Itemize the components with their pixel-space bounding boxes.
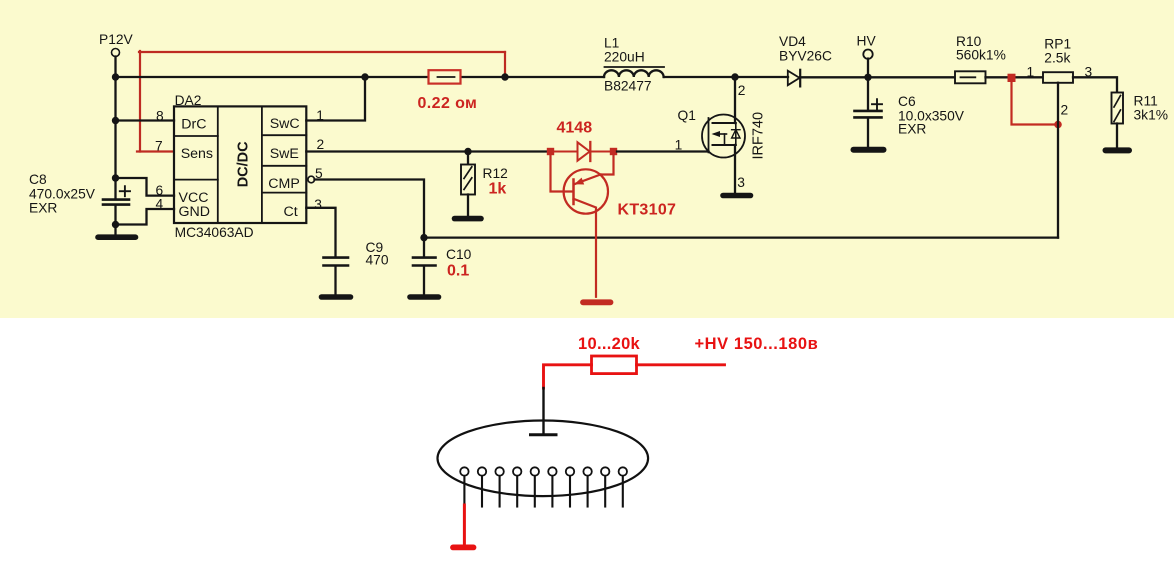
- wire red resistor right to +HV: [637, 363, 725, 366]
- inductor L1 core bar: [605, 66, 665, 68]
- chip DA2 inner columns: [217, 106, 219, 223]
- svg-text:220uH: 220uH: [604, 49, 645, 64]
- svg-text:2.5k: 2.5k: [1044, 50, 1070, 65]
- svg-text:L1: L1: [604, 35, 619, 50]
- inductor L1 winding bumps: [604, 70, 664, 77]
- junction dot pin4/GND: [112, 221, 119, 228]
- svg-text:B82477: B82477: [604, 78, 652, 93]
- junction dot pin8: [112, 117, 119, 124]
- wire rail shunt R right to inductor: [461, 76, 605, 78]
- wire pin 6 VCC jog: [116, 178, 175, 196]
- collector lead: [574, 199, 597, 297]
- wire Q1 drain to rail: [734, 77, 736, 123]
- capacitor C6 plus sign: [872, 99, 882, 109]
- resistor R10 power-mark dash: [961, 76, 976, 78]
- Q1 right vertical (body diode path): [735, 123, 737, 145]
- wire pin 8 DrC to +12V: [116, 119, 175, 121]
- svg-text:8: 8: [156, 109, 164, 124]
- wire red horizontal top to shunt node: [139, 51, 505, 53]
- ground under R11: [1106, 147, 1130, 153]
- tube envelope ellipse: [438, 421, 649, 497]
- wire feedback line from RP1 wiper: [424, 236, 1058, 238]
- svg-text:SwC: SwC: [270, 116, 300, 132]
- Q1 body diode: [732, 130, 740, 138]
- resistor 10...20k body (red): [592, 356, 637, 374]
- svg-text:DA2: DA2: [175, 93, 202, 108]
- resistor 0.22 ohm shunt (red box): [429, 70, 461, 83]
- junction dot HV node: [864, 74, 871, 81]
- red node dot on wiper: [1054, 121, 1062, 129]
- svg-text:HV: HV: [857, 34, 877, 49]
- wire red cathode to ground: [463, 505, 466, 546]
- resistor R12 power slash: [464, 167, 472, 179]
- svg-text:3: 3: [737, 175, 745, 190]
- potentiometer RP1 body: [1043, 72, 1073, 83]
- svg-text:EXR: EXR: [29, 201, 57, 216]
- junction dot shunt node: [501, 73, 508, 80]
- node HV terminal circle: [863, 50, 872, 59]
- transistor KT3107 (red, PNP): [551, 154, 614, 297]
- wire C10 to ground: [423, 267, 425, 295]
- background schematic yellow area: [0, 0, 1174, 318]
- svg-text:DC/DC: DC/DC: [236, 141, 252, 187]
- resistor R11 power slashes: [1114, 96, 1121, 108]
- wire main +12V vertical from P12V down to C8 top plate: [114, 57, 116, 199]
- svg-text:2: 2: [317, 137, 325, 152]
- ground under R12: [455, 216, 482, 222]
- diode 4148 symbol (red): [554, 142, 610, 161]
- svg-text:RP1: RP1: [1044, 36, 1071, 51]
- svg-text:1: 1: [675, 138, 683, 153]
- diode VD4 symbol: [788, 70, 800, 87]
- svg-text:2: 2: [1061, 103, 1069, 118]
- svg-text:EXR: EXR: [898, 121, 926, 136]
- svg-text:7: 7: [155, 139, 163, 154]
- capacitor C6 top lead: [867, 77, 869, 109]
- svg-text:MC34063AD: MC34063AD: [175, 225, 254, 240]
- svg-text:SwE: SwE: [270, 146, 299, 162]
- transistor body circle: [564, 169, 608, 213]
- wire pin 1 SwC up to rail: [306, 77, 365, 121]
- ground under Q1: [723, 193, 751, 199]
- svg-text:470: 470: [366, 252, 389, 267]
- capacitor C10 plates: [413, 258, 436, 266]
- svg-text:VD4: VD4: [779, 34, 806, 49]
- base lead red: [551, 154, 573, 192]
- junction dot P12V rail: [112, 73, 119, 80]
- svg-text:Ct: Ct: [284, 204, 298, 220]
- svg-text:1: 1: [1027, 65, 1035, 80]
- wire red to Sens pin: [137, 150, 174, 152]
- svg-text:2: 2: [738, 83, 746, 98]
- emitter arrowhead: [574, 178, 584, 185]
- svg-text:4148: 4148: [557, 120, 593, 137]
- red node square R10/RP1 junction: [1008, 74, 1016, 82]
- node P12V terminal circle: [112, 49, 120, 57]
- wire rail VD4 to R10: [800, 76, 955, 78]
- capacitor C8 plus sign: [120, 186, 130, 196]
- svg-text:0.22 ом: 0.22 ом: [418, 95, 478, 112]
- capacitor C8 plates: [103, 200, 129, 205]
- resistor R12 top lead: [467, 152, 469, 165]
- wire R10 to red node: [986, 76, 1044, 78]
- potentiometer RP1 wiper line: [1057, 83, 1059, 238]
- Q1 source bar: [713, 144, 736, 146]
- svg-text:1k: 1k: [489, 181, 507, 198]
- resistor R12 body: [461, 165, 475, 195]
- Q1 body circle: [702, 115, 745, 158]
- svg-text:1: 1: [316, 108, 324, 123]
- wire rail inductor to VD4: [664, 76, 788, 78]
- capacitor C6 bottom lead: [867, 119, 869, 147]
- chip DA2 left dividers: [174, 135, 218, 137]
- ground red (tube cathode): [453, 545, 474, 551]
- junction dot feedback joins CMP node: [420, 234, 427, 241]
- ground under C6: [854, 147, 884, 153]
- wire pin 4 GND jog: [116, 209, 175, 225]
- wire red drop from top run to rail: [504, 52, 506, 75]
- wire tube anode lead (black): [542, 388, 544, 434]
- svg-text:Sens: Sens: [181, 146, 213, 162]
- svg-text:IRF740: IRF740: [751, 112, 767, 160]
- red node square right (4148 cathode): [610, 148, 617, 155]
- junction dot SwC rail: [361, 73, 368, 80]
- Q1 gate bar: [708, 118, 710, 152]
- resistor R11 body: [1112, 93, 1124, 124]
- chip DA2 outer box: [174, 106, 306, 223]
- svg-text:10...20k: 10...20k: [578, 335, 641, 353]
- svg-text:470.0x25V: 470.0x25V: [29, 186, 96, 201]
- svg-text:3: 3: [314, 197, 322, 212]
- junction dot R12 top: [464, 148, 471, 155]
- capacitor C6 plates: [855, 111, 882, 118]
- Q1 drain bar: [713, 122, 736, 124]
- wire gate line black to Q1: [617, 150, 709, 152]
- svg-text:C8: C8: [29, 172, 47, 187]
- svg-text:+HV 150...180в: +HV 150...180в: [695, 335, 819, 353]
- svg-text:BYV26C: BYV26C: [779, 49, 832, 64]
- ground under C8: [98, 234, 136, 240]
- capacitor C9 plates: [324, 258, 349, 266]
- junction dot pin6/VCC: [112, 174, 119, 181]
- transistor Q1 MOSFET symbol: [702, 115, 745, 158]
- wire pin 5 CMP to C10: [315, 180, 425, 256]
- junction dot Q1 drain rail: [731, 73, 738, 80]
- emitter lead: [574, 175, 601, 185]
- wire HV terminal to rail: [867, 59, 869, 78]
- wire red sense drop: [1012, 80, 1056, 125]
- svg-text:C6: C6: [898, 94, 916, 109]
- chip DA2 right dividers: [262, 134, 306, 136]
- wire pin 3 Ct to C9: [306, 208, 335, 256]
- svg-text:KT3107: KT3107: [618, 202, 677, 219]
- svg-text:4: 4: [156, 197, 164, 212]
- wire C8 bottom plate to ground: [114, 206, 116, 235]
- wire C9 to ground: [334, 267, 336, 295]
- svg-text:Q1: Q1: [678, 108, 696, 123]
- wire Q1 source to ground: [734, 145, 736, 193]
- svg-text:560k1%: 560k1%: [956, 48, 1006, 63]
- tube anode bar: [531, 433, 557, 436]
- red node square left (4148 anode): [547, 148, 554, 155]
- svg-text:C10: C10: [446, 247, 472, 262]
- resistor 0.22 power-mark dash: [438, 76, 455, 78]
- wire red anode resistor left: [544, 365, 592, 388]
- Q1 substrate-source step: [724, 134, 726, 145]
- svg-text:3k1%: 3k1%: [1134, 108, 1169, 123]
- svg-text:DrC: DrC: [181, 116, 206, 132]
- tube pin circles: [460, 467, 627, 475]
- svg-text:CMP: CMP: [268, 176, 300, 192]
- wire red from P12V area to Sens pin 7 (vertical): [139, 51, 141, 152]
- ground under C10: [410, 294, 439, 300]
- svg-text:R12: R12: [483, 166, 508, 181]
- wire pin 2 SwE to gate line: [306, 150, 548, 152]
- ground under KT3107 (red): [583, 299, 611, 305]
- resistor R10 body: [955, 71, 986, 83]
- svg-text:GND: GND: [179, 204, 211, 220]
- resistor R12 bottom lead: [467, 195, 469, 217]
- svg-text:R11: R11: [1134, 94, 1158, 109]
- svg-text:P12V: P12V: [99, 32, 134, 47]
- pin 5 CMP open circle: [308, 176, 315, 183]
- svg-text:0.1: 0.1: [447, 263, 469, 280]
- tube pins: [464, 476, 622, 507]
- emitter to 4148 cathode: [601, 154, 614, 175]
- resistor R11 bottom lead: [1116, 124, 1118, 148]
- Q1 substrate arrow: [715, 133, 727, 135]
- wire RP1 pin3 to R11: [1073, 77, 1117, 92]
- wire main rail P12V to shunt R left: [116, 76, 429, 78]
- base bar: [572, 180, 575, 205]
- ground under C9: [322, 294, 351, 300]
